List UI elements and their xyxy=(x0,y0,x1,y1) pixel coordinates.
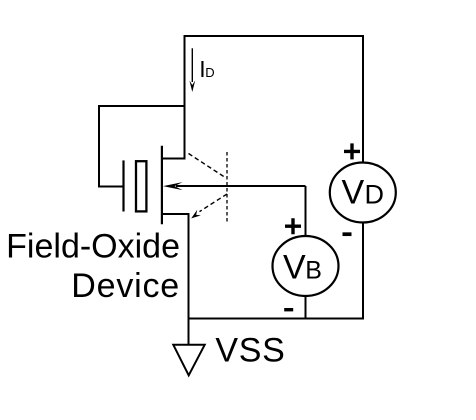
bulk arrowhead pointing at channel xyxy=(163,182,183,190)
current arrow ID line xyxy=(191,48,193,82)
dashed arrow line toward source corner xyxy=(200,194,228,212)
svg-text:D: D xyxy=(365,180,385,210)
wire bulk line from VB to channel xyxy=(176,185,306,187)
wire source contact and riser to VSS xyxy=(162,214,189,345)
svg-text:B: B xyxy=(305,257,322,285)
minus sign for VB xyxy=(284,308,293,311)
wire VB vertical lower xyxy=(305,296,307,319)
dashed arrow head at source corner xyxy=(191,210,201,219)
svg-text:V: V xyxy=(283,249,306,287)
wire right side below VD and bottom wire xyxy=(189,223,364,319)
svg-text:V: V xyxy=(342,174,365,212)
dashed line from drain corner xyxy=(189,154,227,179)
ground symbol VSS triangle xyxy=(173,345,204,376)
plus sign for VD xyxy=(344,143,360,159)
wire gate feedback loop to drain xyxy=(99,106,185,187)
svg-text:VSS: VSS xyxy=(215,332,285,370)
wire VB vertical upper xyxy=(305,186,307,237)
transistor Q1 field-oxide rectangle xyxy=(136,161,146,211)
transistor Q1 channel line xyxy=(161,146,163,225)
minus sign for VD xyxy=(343,232,352,236)
wire drain riser and top wire to VD xyxy=(162,36,364,163)
voltage source VB circle xyxy=(273,236,339,296)
dashed vertical construction line xyxy=(226,152,228,222)
svg-text:Device: Device xyxy=(71,267,180,305)
plus sign for VB xyxy=(285,218,301,234)
svg-text:Field-Oxide: Field-Oxide xyxy=(6,227,180,265)
voltage source VD circle xyxy=(330,163,396,223)
current arrow ID head xyxy=(189,81,195,93)
svg-text:D: D xyxy=(205,65,214,80)
transistor Q1 gate plate xyxy=(122,160,124,211)
